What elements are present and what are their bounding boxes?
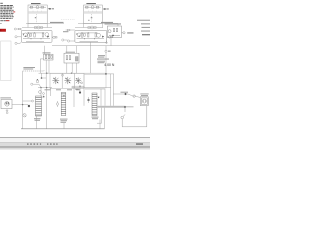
outlet labels [140, 93, 148, 96]
AC plug labels [0, 97, 11, 98]
fuse [39, 91, 42, 94]
dashed drop from B2 [91, 14, 93, 23]
box B1 label [31, 3, 41, 4]
arrow A1 [48, 8, 50, 10]
faint dotted line [61, 18, 75, 20]
socket box 2 [62, 73, 74, 88]
right feed line [78, 23, 118, 27]
plug drop [6, 109, 8, 114]
interstage output [122, 32, 126, 34]
empty box right [84, 75, 106, 88]
drop right vertical x106 [105, 46, 107, 74]
faint legend box [1, 41, 11, 81]
red logo bar [0, 29, 6, 32]
pilot lamp [32, 100, 34, 102]
B2 shaded band [84, 11, 102, 14]
cluster2 caps [64, 53, 79, 63]
ch1 output [52, 36, 57, 38]
misc verticals [72, 86, 84, 107]
legend red entry [6, 20, 10, 21]
transformer T3 [92, 93, 97, 116]
wire left of cluster1 [40, 59, 43, 73]
interstage box label [105, 23, 122, 24]
long left vertical [22, 71, 24, 129]
channel 1 top bus [22, 26, 52, 29]
socket labels [45, 89, 81, 90]
mid notes text [97, 55, 109, 63]
B1 shaded band [28, 11, 47, 14]
dashed drop from B1 [35, 14, 37, 23]
drops to cluster2 [66, 46, 68, 54]
chassis gray band [97, 106, 126, 108]
plug wire [12, 104, 28, 106]
switch near T2 [56, 101, 58, 107]
socket box 1 [50, 73, 62, 88]
sensitivity text [23, 67, 35, 70]
toolbar [0, 136, 150, 139]
interstage drop [110, 38, 112, 46]
B2 center mark [91, 17, 93, 18]
feed line y87.6 [38, 87, 52, 89]
socket sym 2 [64, 77, 71, 84]
ch2 jacks [62, 39, 75, 42]
toolbar icons [27, 143, 58, 145]
channel 2 top bus [75, 26, 103, 29]
aux switch [43, 93, 45, 95]
ch2 output [107, 36, 113, 38]
box B1 [28, 5, 47, 23]
B1 center mark [35, 17, 37, 18]
tiny speck [88, 19, 89, 22]
right switch [121, 106, 147, 127]
ch2 tube V3 [77, 33, 81, 37]
wire ch2 down [90, 42, 92, 73]
cluster1 drops [45, 60, 47, 73]
interstage box [107, 26, 121, 38]
AC outlet line [113, 94, 140, 97]
ch1 jacks [15, 36, 21, 45]
bottom drops [37, 108, 105, 129]
ch1 tube V1 [24, 33, 28, 37]
socket sym 1 [52, 77, 59, 84]
right notes text [137, 20, 150, 32]
Gr circle [105, 50, 107, 52]
socket sym 3 [75, 77, 81, 84]
legend notes text block [0, 3, 15, 24]
svg-text:4.00 N: 4.00 N [104, 63, 115, 67]
ch2 resistors [77, 33, 105, 41]
ch1 resistors [23, 33, 50, 41]
left feed line [26, 23, 64, 27]
line to pilot [23, 100, 32, 102]
pot circle left [62, 74, 64, 76]
box B2 label [86, 3, 96, 4]
pot near transformer [31, 73, 47, 87]
drop to cluster1 [43, 46, 45, 55]
ch2 input resistor top [66, 29, 75, 31]
transformer labels [34, 117, 99, 123]
arrow A2 [103, 8, 105, 10]
cluster1 caps [44, 54, 54, 60]
channel 2 box [75, 30, 107, 42]
outlet box [140, 97, 148, 106]
right nested verticals [85, 74, 113, 106]
ch2 tube V4 [97, 33, 101, 37]
cluster2 label [66, 52, 75, 53]
AC plug box [1, 99, 12, 108]
transformer T2 [61, 93, 66, 116]
transformer T1 [36, 96, 42, 116]
dashed wire left [23, 70, 44, 72]
bottom bus [21, 128, 105, 130]
toolbar right text [136, 143, 143, 145]
channel 1 box [21, 30, 52, 42]
main bus y73.2 [39, 72, 114, 75]
lamp symbol [87, 99, 89, 101]
ch1 input jack R [14, 28, 22, 30]
cluster2 drops [66, 63, 68, 73]
ch1 tube V2 [45, 33, 49, 37]
ground mark [105, 41, 107, 44]
cluster1 label [43, 52, 51, 53]
socket box 3 [74, 73, 84, 88]
main bus y45.7 [52, 45, 150, 47]
ch2 small label [63, 31, 68, 32]
main power switch [23, 114, 27, 117]
box B2 [84, 5, 103, 23]
